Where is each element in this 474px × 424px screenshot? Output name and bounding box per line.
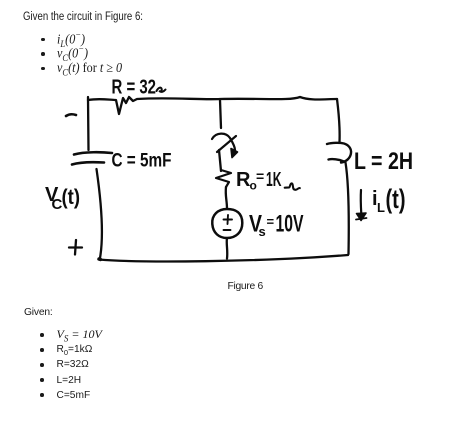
label R0 ohm squiggle bbox=[285, 183, 300, 189]
voltage source plus bbox=[224, 215, 233, 224]
switch arc stroke bbox=[212, 134, 235, 150]
resistor R0 zigzag bbox=[216, 170, 231, 187]
wire: middle branch from top bbox=[220, 100, 221, 128]
given bullet 5 bbox=[40, 393, 44, 397]
wire: top side with resistor R squiggle bbox=[88, 97, 337, 114]
svg-text:(t): (t) bbox=[62, 186, 81, 209]
minus sign top-left bbox=[66, 114, 76, 116]
given label bbox=[24, 307, 53, 318]
bullet 2 bbox=[41, 52, 45, 56]
voltage source minus bbox=[224, 229, 231, 231]
given bullet 4 bbox=[40, 378, 44, 382]
svg-text:=: = bbox=[256, 168, 264, 184]
capacitor C top plate bbox=[74, 152, 112, 154]
svg-text:(t): (t) bbox=[386, 184, 406, 214]
arrow iL stem bbox=[360, 190, 363, 214]
wire: right vertical upper bbox=[337, 99, 340, 142]
wire: switch to resistor bbox=[219, 150, 221, 171]
given bullet 1 bbox=[40, 333, 44, 337]
svg-text:C = 5mF: C = 5mF bbox=[112, 151, 172, 172]
figure caption bbox=[228, 281, 263, 292]
wire: left vertical lower bbox=[97, 169, 102, 258]
wire: left vertical upper bbox=[87, 97, 90, 150]
given bullet 3 bbox=[40, 363, 44, 367]
wire: bottom side bbox=[99, 255, 348, 261]
plus sign bottom-left bbox=[69, 240, 82, 255]
wire: right vertical lower bbox=[346, 163, 349, 255]
svg-text:L: L bbox=[377, 200, 385, 215]
label R ohm squiggle bbox=[157, 88, 166, 92]
wire: source to bottom bbox=[226, 238, 229, 259]
bottom-left corner blob bbox=[99, 257, 101, 261]
arrow iL head bbox=[357, 213, 367, 221]
arrow iL foot bbox=[356, 218, 367, 220]
heading text bbox=[23, 11, 143, 23]
svg-text:R = 32: R = 32 bbox=[112, 77, 157, 99]
inductor L curl bbox=[327, 143, 351, 163]
svg-text:=: = bbox=[267, 214, 275, 229]
voltage source VS circle bbox=[212, 209, 242, 238]
bullet 1 bbox=[41, 38, 45, 42]
inductor L bottom loop bbox=[329, 159, 344, 161]
switch cross stroke bbox=[217, 136, 236, 152]
switch arrowhead bbox=[231, 149, 238, 158]
svg-text:L = 2H: L = 2H bbox=[354, 148, 413, 175]
capacitor C bottom plate bbox=[72, 162, 104, 164]
wire: resistor to source bbox=[226, 187, 227, 209]
svg-text:s: s bbox=[259, 224, 266, 239]
given bullet 2 bbox=[40, 348, 44, 352]
bullet 3 bbox=[41, 67, 45, 71]
svg-text:1K: 1K bbox=[266, 169, 282, 191]
svg-text:10V: 10V bbox=[276, 211, 304, 238]
